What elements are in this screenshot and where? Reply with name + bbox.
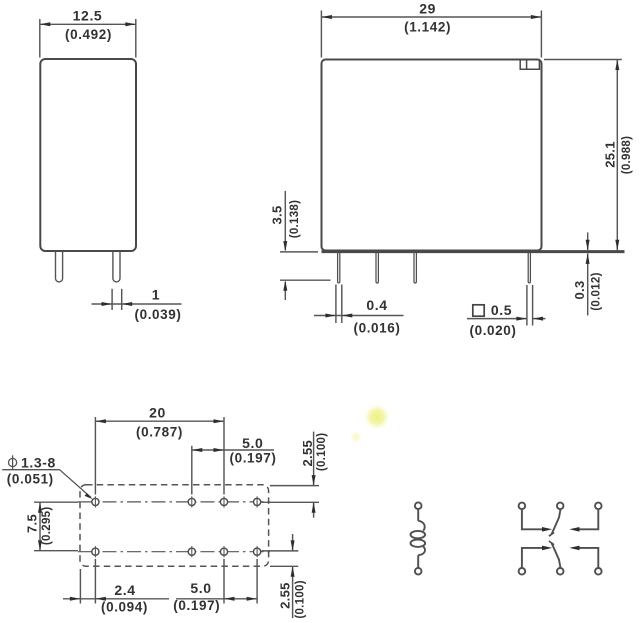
svg-text:(0.100): (0.100) <box>316 433 328 472</box>
wire B1 to NO contact <box>522 548 543 568</box>
wire T1 to NO contact <box>522 509 543 529</box>
svg-text:(0.295): (0.295) <box>41 507 53 546</box>
svg-text:2.4: 2.4 <box>114 582 135 598</box>
contact terminal B3 <box>595 568 602 575</box>
svg-text:(0.020): (0.020) <box>470 323 517 338</box>
svg-text:(0.039): (0.039) <box>135 307 182 322</box>
svg-text:3.5: 3.5 <box>270 206 285 225</box>
contact terminal T1 <box>519 503 526 510</box>
dimension 2.4 <box>63 559 169 604</box>
relay body front view <box>322 60 542 251</box>
wire T3 to NC contact <box>579 509 599 529</box>
svg-text:(0.051): (0.051) <box>7 472 54 487</box>
dimension 2.55 top right <box>262 432 320 518</box>
svg-text:29: 29 <box>419 1 436 17</box>
svg-text:2.55: 2.55 <box>300 440 315 467</box>
dimension 29 <box>321 11 541 58</box>
dimension 3.5 (pin length) <box>280 191 331 300</box>
centerline top row <box>78 501 271 503</box>
dimension 12.5 <box>40 19 136 58</box>
svg-text:(0.012): (0.012) <box>591 272 603 311</box>
dimension 7.5 <box>34 502 78 551</box>
svg-text:2.55: 2.55 <box>278 582 293 609</box>
svg-text:5.0: 5.0 <box>190 580 211 596</box>
contact terminal T3 <box>595 503 602 510</box>
svg-text:(0.016): (0.016) <box>354 321 401 336</box>
dimension 20 <box>95 417 224 495</box>
dimension 0.4 (pin thickness) <box>314 285 404 324</box>
dimension 5.0 top <box>192 446 274 495</box>
dimension 1 (pin width) <box>92 289 182 310</box>
svg-text:0.5: 0.5 <box>491 302 512 318</box>
contact terminal B1 <box>519 568 526 575</box>
svg-text:(0.138): (0.138) <box>289 200 301 239</box>
svg-text:12.5: 12.5 <box>73 8 103 24</box>
body bottom flange thick line <box>322 250 625 253</box>
svg-text:5.0: 5.0 <box>242 435 263 451</box>
pcb outline dashed <box>80 485 269 567</box>
contact terminal B2 <box>557 568 564 575</box>
svg-text:0.3: 0.3 <box>572 281 587 300</box>
front pin 4 <box>528 253 530 283</box>
front pin 1 <box>338 253 340 283</box>
svg-text:0.4: 0.4 <box>366 297 387 313</box>
side view left pin <box>56 251 63 282</box>
vent notch top right <box>520 60 539 69</box>
svg-text:(0.094): (0.094) <box>101 600 148 615</box>
dimension 5.0 bottom <box>176 559 257 604</box>
relay body side view <box>40 59 136 251</box>
coil terminal bottom <box>415 568 422 575</box>
dimension 2.55 bottom right <box>262 534 299 618</box>
svg-text:(1.142): (1.142) <box>404 19 451 34</box>
hole center ticks <box>95 496 257 557</box>
side view right pin <box>113 251 120 282</box>
highlight blob <box>350 404 390 443</box>
hole size label 1.3-8 <box>2 455 91 497</box>
movable blade pole 1 <box>552 510 561 534</box>
svg-text:1: 1 <box>152 287 160 303</box>
svg-text:20: 20 <box>149 405 166 421</box>
dimension square 0.5 (pin square) <box>473 305 484 316</box>
contact terminal T2 <box>557 503 564 510</box>
coil L1 <box>411 509 426 568</box>
svg-text:(0.787): (0.787) <box>136 424 183 439</box>
coil terminal top <box>415 502 422 509</box>
mounting holes <box>92 498 261 555</box>
svg-text:(0.197): (0.197) <box>230 451 277 466</box>
centerline bottom row <box>78 551 271 553</box>
svg-text:(0.492): (0.492) <box>65 27 112 42</box>
front pin 3 <box>414 253 416 283</box>
dimension 0.3 (flange thickness) <box>587 232 589 315</box>
svg-text:1.3-8: 1.3-8 <box>21 454 56 470</box>
svg-text:7.5: 7.5 <box>25 514 40 533</box>
front pin 2 <box>376 253 378 283</box>
dimension 25.1 <box>544 60 622 251</box>
svg-text:(0.100): (0.100) <box>295 580 307 619</box>
svg-text:(0.197): (0.197) <box>173 598 220 613</box>
wire B3 to NC contact <box>579 548 599 568</box>
svg-text:25.1: 25.1 <box>602 141 617 168</box>
svg-text:(0.988): (0.988) <box>621 136 633 175</box>
movable blade pole 2 <box>552 543 561 567</box>
